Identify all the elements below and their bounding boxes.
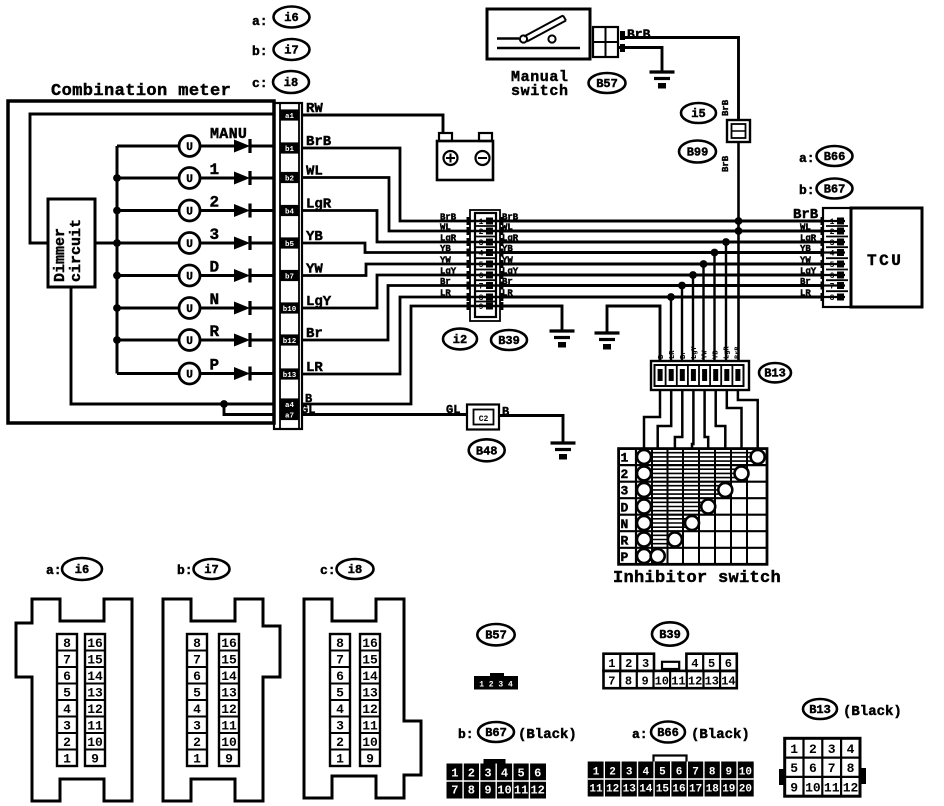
contact common row D (637, 500, 651, 514)
oval i5 (681, 103, 716, 123)
svg-text:10: 10 (362, 735, 378, 750)
wire WL to TCU (500, 230, 823, 233)
svg-text:17: 17 (689, 784, 702, 796)
oval i8 bottom (337, 559, 374, 579)
wire inhibitor lead (716, 390, 726, 449)
svg-text:B39: B39 (498, 334, 520, 348)
svg-text:18: 18 (706, 784, 720, 796)
svg-text:2: 2 (468, 767, 475, 781)
connector housing a i6 (16, 599, 132, 801)
TCU box U2 (851, 208, 922, 307)
label a:(B66) (Black) (632, 727, 648, 742)
svg-text:3: 3 (479, 239, 484, 248)
svg-text:2: 2 (621, 467, 629, 482)
wire drop to inhibitor pin (713, 253, 715, 363)
wire YB meter to joint connector (302, 243, 470, 253)
svg-text:c:: c: (252, 76, 268, 91)
svg-text:b7: b7 (285, 274, 294, 282)
wire B meter to joint connector (302, 306, 470, 404)
svg-text:2: 2 (830, 228, 835, 237)
svg-text:WL: WL (440, 223, 451, 233)
lamp R (179, 330, 200, 351)
wire diode to connector pin (251, 145, 274, 148)
svg-text:b10: b10 (283, 306, 297, 314)
svg-text:b12: b12 (283, 338, 297, 346)
oval B66 bottom (651, 722, 685, 743)
svg-text:15: 15 (656, 784, 670, 796)
svg-text:LgY: LgY (800, 267, 817, 277)
connector housing b i7 (163, 599, 280, 801)
connector i8 oval (273, 71, 309, 93)
svg-text:14: 14 (87, 669, 103, 684)
svg-text:a:: a: (799, 151, 815, 166)
svg-text:12: 12 (843, 780, 859, 795)
svg-text:3: 3 (336, 718, 344, 733)
svg-text:11: 11 (362, 718, 378, 733)
svg-text:U: U (186, 336, 193, 348)
svg-text:5: 5 (479, 261, 484, 270)
svg-text:1: 1 (593, 767, 600, 779)
connector B66 pin view black (588, 756, 754, 797)
wire dimmer bottom to pin B (71, 287, 274, 404)
oval B66 (817, 146, 853, 166)
wire LgY to TCU (500, 274, 823, 277)
svg-text:b:: b: (252, 44, 268, 59)
svg-text:i2: i2 (453, 333, 467, 347)
svg-text:3: 3 (642, 657, 649, 671)
wire inhibitor lead (738, 390, 758, 449)
svg-text:LR: LR (440, 289, 451, 299)
svg-text:B66: B66 (657, 726, 679, 740)
svg-text:7: 7 (193, 652, 201, 667)
svg-text:i7: i7 (284, 44, 298, 58)
svg-text:b1: b1 (285, 146, 295, 154)
wire Br meter to joint connector (302, 286, 470, 341)
svg-text:6: 6 (676, 767, 683, 779)
svg-text:13: 13 (362, 685, 378, 700)
svg-text:P: P (210, 357, 220, 375)
label (B13) (Black) (803, 699, 902, 720)
label c:(i8) bottom (320, 563, 336, 578)
contact common row R (637, 533, 651, 547)
svg-text:5: 5 (830, 261, 835, 270)
diode D7 (234, 333, 250, 347)
wire B to ground (499, 416, 563, 443)
node junction row2 (735, 227, 743, 235)
svg-text:3: 3 (484, 767, 491, 781)
contact 3 position (718, 483, 732, 497)
svg-text:14: 14 (362, 669, 378, 684)
wire lamp N to diode (200, 307, 235, 310)
svg-text:U: U (186, 304, 193, 316)
svg-text:1: 1 (336, 751, 344, 766)
svg-text:8: 8 (63, 636, 71, 651)
wire RW (302, 115, 443, 134)
svg-text:9: 9 (725, 767, 732, 779)
lamp 1 (179, 168, 200, 189)
svg-text:2: 2 (625, 657, 632, 671)
contact common row P (637, 549, 651, 563)
connector B67 pin view black (447, 759, 547, 799)
svg-text:a7: a7 (285, 413, 294, 421)
svg-text:D: D (621, 500, 629, 515)
wire lamp 3 to diode (200, 242, 235, 245)
inhibitor connector B13 (651, 361, 749, 390)
node junction B/GL branch (220, 400, 228, 408)
svg-text:9: 9 (479, 303, 484, 312)
wire lamp 1 to diode (200, 177, 235, 180)
svg-text:i6: i6 (75, 563, 89, 577)
contact strip row P (650, 552, 658, 560)
svg-text:4: 4 (691, 657, 698, 671)
wire drop to inhibitor pin (670, 297, 672, 362)
wire drop to inhibitor pin (702, 264, 704, 362)
lamp D (179, 265, 200, 286)
label b:(B67) (799, 183, 815, 198)
svg-text:4: 4 (501, 767, 508, 781)
svg-text:5: 5 (708, 657, 715, 671)
manual switch S1 (487, 9, 590, 59)
svg-text:3: 3 (828, 742, 836, 757)
wire bus to lamp P (117, 372, 180, 375)
manual switch connector pins (593, 27, 625, 57)
svg-text:11: 11 (514, 784, 528, 798)
label a:(i6) bottom (46, 563, 62, 578)
contact strip row N (650, 519, 692, 527)
svg-text:U: U (186, 142, 193, 154)
contact 1 position (751, 450, 765, 464)
svg-text:U: U (186, 174, 193, 186)
oval B48 (469, 439, 505, 461)
svg-text:6: 6 (534, 767, 541, 781)
svg-text:YB: YB (713, 350, 721, 359)
svg-text:16: 16 (362, 636, 378, 651)
svg-text:Dimmer: Dimmer (52, 228, 69, 282)
svg-text:2: 2 (479, 228, 484, 237)
svg-text:1: 1 (193, 751, 201, 766)
svg-text:b13: b13 (283, 372, 297, 380)
svg-text:N: N (621, 517, 629, 532)
label b:(i7) bottom (177, 563, 193, 578)
wire manual switch to ground (618, 48, 662, 72)
contact strip row R (650, 535, 675, 543)
wires into TCU connector (821, 217, 846, 301)
svg-text:i8: i8 (284, 76, 298, 90)
svg-text:12: 12 (688, 675, 702, 689)
wire inhibitor lead (658, 390, 672, 449)
svg-text:LgY: LgY (691, 346, 699, 359)
svg-text:U: U (186, 239, 193, 251)
svg-text:GL: GL (446, 403, 460, 417)
wire LR to TCU (500, 296, 823, 299)
svg-text:1: 1 (790, 742, 798, 757)
ground G1 (550, 331, 575, 348)
svg-text:c:: c: (320, 563, 336, 578)
svg-text:6: 6 (479, 272, 484, 281)
connector B57 pin view (474, 673, 518, 690)
ground G4 (551, 443, 576, 460)
contact strip row 2 (650, 469, 742, 477)
wire WL meter to joint connector (302, 178, 470, 232)
svg-text:4: 4 (642, 767, 649, 779)
svg-text:Br: Br (800, 277, 811, 287)
wire bus to lamp 3 (117, 242, 180, 245)
svg-text:4: 4 (63, 702, 71, 717)
svg-text:B66: B66 (824, 150, 846, 164)
ground G2 (595, 333, 620, 350)
svg-text:1: 1 (830, 218, 835, 227)
wire bus to lamp 1 (117, 177, 180, 180)
svg-text:MANU: MANU (210, 126, 247, 143)
svg-text:14: 14 (221, 669, 237, 684)
svg-text:B67: B67 (824, 183, 846, 197)
svg-text:Br: Br (680, 351, 688, 359)
wire LR meter to joint connector (302, 297, 470, 374)
svg-text:15: 15 (87, 652, 103, 667)
svg-text:YB: YB (800, 244, 811, 254)
svg-text:10: 10 (805, 780, 821, 795)
svg-text:BrB: BrB (721, 155, 731, 172)
node junction (678, 282, 686, 290)
contact D position (701, 500, 715, 514)
svg-text:YW: YW (440, 256, 451, 266)
svg-text:5: 5 (336, 685, 344, 700)
contact common row N (637, 516, 651, 530)
illumination control unit (437, 133, 493, 180)
svg-text:LgR: LgR (724, 346, 732, 359)
svg-text:B48: B48 (476, 444, 498, 458)
svg-text:16: 16 (221, 636, 237, 651)
svg-text:15: 15 (362, 652, 378, 667)
wire diode to connector pin (251, 242, 274, 245)
svg-text:b4: b4 (285, 209, 295, 217)
connector B39 pin view (604, 654, 737, 689)
connector label c:(i8) (252, 76, 268, 91)
wire diode to connector pin (251, 177, 274, 180)
wire YW to TCU (500, 263, 823, 266)
svg-text:11: 11 (824, 780, 840, 795)
svg-text:D: D (210, 259, 220, 277)
svg-text:3: 3 (193, 718, 201, 733)
connector housing c i8 (304, 599, 421, 798)
svg-text:16: 16 (87, 636, 103, 651)
svg-text:1: 1 (451, 767, 458, 781)
svg-text:b:: b: (458, 727, 474, 742)
svg-text:LgR: LgR (440, 234, 457, 244)
oval i7 bottom (194, 559, 230, 579)
svg-text:7: 7 (692, 767, 699, 779)
svg-text:2: 2 (609, 767, 616, 779)
svg-text:9: 9 (484, 784, 491, 798)
oval B67 (817, 179, 853, 199)
node junction (711, 249, 719, 257)
svg-text:Br: Br (440, 277, 451, 287)
svg-text:9: 9 (225, 751, 233, 766)
inhibitor switch S2 grid (619, 449, 767, 565)
lamp N (179, 298, 200, 319)
oval B57 bottom (477, 624, 514, 645)
svg-text:P: P (621, 550, 629, 565)
svg-text:13: 13 (87, 685, 103, 700)
oval B99 (679, 141, 716, 163)
svg-text:5: 5 (790, 761, 798, 776)
wire inhibitor lead (675, 390, 682, 449)
wire bus to lamp 2 (117, 209, 180, 212)
svg-text:12: 12 (221, 702, 237, 717)
svg-text:U: U (186, 207, 193, 219)
svg-text:10: 10 (497, 784, 511, 798)
svg-text:8: 8 (336, 636, 344, 651)
wire manual switch BrB drop (737, 142, 740, 362)
wire diode to connector pin (251, 339, 274, 342)
connector label a:(i6) (252, 14, 268, 29)
wire LgR meter to joint connector (302, 211, 470, 243)
contact strip row 1 (650, 453, 758, 461)
oval i6 bottom (62, 558, 102, 580)
diode D2 (234, 171, 250, 185)
svg-text:(Black): (Black) (691, 727, 750, 743)
svg-text:7: 7 (828, 761, 836, 776)
svg-text:12: 12 (530, 784, 544, 798)
wire lamp R to diode (200, 339, 235, 342)
wire YB to TCU (500, 251, 823, 254)
diode D6 (234, 301, 250, 315)
svg-text:6: 6 (63, 669, 71, 684)
wire GL (302, 413, 467, 416)
wire drop to inhibitor pin (725, 242, 727, 362)
wire LgR to TCU (500, 241, 823, 244)
oval i2 (443, 329, 477, 350)
svg-text:13: 13 (221, 685, 237, 700)
svg-text:a:: a: (252, 14, 268, 29)
svg-text:1: 1 (621, 451, 629, 466)
oval B67 bottom (478, 722, 514, 742)
wire BrB to TCU (500, 220, 823, 223)
svg-text:1: 1 (479, 218, 484, 227)
wire branch to pin GL (224, 404, 274, 415)
svg-text:4: 4 (336, 702, 344, 717)
svg-text:7: 7 (479, 283, 484, 292)
svg-text:5: 5 (193, 685, 201, 700)
wire bus to lamp R (117, 339, 180, 342)
contact N position (685, 516, 699, 530)
svg-text:7: 7 (336, 652, 344, 667)
svg-text:N: N (210, 291, 220, 309)
svg-text:13: 13 (623, 784, 637, 796)
contact common row 1 (637, 450, 651, 464)
svg-text:7: 7 (451, 784, 458, 798)
svg-text:YW: YW (702, 350, 710, 359)
svg-text:8: 8 (830, 294, 835, 303)
svg-text:1 2 3 4: 1 2 3 4 (479, 681, 513, 690)
node bus junction (113, 174, 121, 182)
wire inhibitor ground leg (607, 306, 660, 362)
svg-text:i8: i8 (348, 563, 362, 577)
inline connector B48 (GL/B) (467, 405, 499, 430)
wire inhibitor lead (644, 390, 660, 449)
svg-text:10: 10 (221, 735, 237, 750)
svg-text:YB: YB (440, 244, 451, 254)
svg-text:1: 1 (210, 161, 220, 179)
svg-text:B67: B67 (485, 726, 507, 740)
label a:(B66) (799, 151, 815, 166)
wire labels above B13 (658, 346, 743, 359)
svg-text:1: 1 (608, 657, 615, 671)
lamp 2 (179, 200, 200, 221)
wire lamp P to diode (200, 372, 235, 375)
svg-text:8: 8 (479, 294, 484, 303)
svg-text:2: 2 (193, 735, 201, 750)
svg-text:20: 20 (739, 784, 752, 796)
svg-text:U: U (186, 272, 193, 284)
wire B to ground (500, 306, 562, 330)
svg-text:BrB: BrB (793, 207, 819, 223)
label b:(B67) (Black) (458, 727, 474, 742)
wire inhibitor lead (692, 390, 693, 449)
svg-text:i5: i5 (691, 107, 705, 121)
wire inhibitor lead (727, 390, 742, 449)
svg-text:1: 1 (63, 751, 71, 766)
svg-text:b2: b2 (285, 176, 295, 184)
node bus junction (113, 304, 121, 312)
wire inhibitor lead (705, 390, 709, 449)
svg-text:WL: WL (800, 223, 811, 233)
svg-text:10: 10 (87, 735, 103, 750)
svg-text:a:: a: (632, 727, 648, 742)
svg-text:B13: B13 (764, 367, 786, 381)
svg-text:BrB: BrB (735, 346, 743, 359)
wire drop to inhibitor pin (681, 286, 683, 363)
svg-text:TCU: TCU (867, 252, 903, 270)
lamp MANU (179, 136, 200, 157)
contact R position (668, 533, 682, 547)
lamp 3 (179, 233, 200, 254)
svg-text:2: 2 (63, 735, 71, 750)
svg-text:8: 8 (468, 784, 475, 798)
svg-text:2: 2 (210, 194, 220, 212)
node junction (722, 238, 730, 246)
wire YW meter to joint connector (302, 264, 470, 276)
svg-text:a1: a1 (285, 113, 295, 121)
wire bus to lamp N (117, 307, 180, 310)
contact common row 3 (637, 483, 651, 497)
svg-text:9: 9 (91, 751, 99, 766)
svg-text:8: 8 (709, 767, 716, 779)
wire Br to TCU (500, 284, 823, 287)
svg-text:3: 3 (830, 239, 835, 248)
diode D1 (234, 139, 250, 153)
svg-text:7: 7 (608, 675, 615, 689)
wire lamp supply bus (116, 146, 119, 374)
svg-text:LR: LR (669, 350, 677, 359)
wire drop to inhibitor pin (692, 275, 694, 362)
wire BrB manual switch to drop (625, 38, 739, 121)
wire bus to lamp D (117, 274, 180, 277)
svg-text:C2: C2 (479, 415, 489, 424)
svg-text:6: 6 (725, 657, 732, 671)
svg-text:12: 12 (362, 702, 378, 717)
connector i6 oval (274, 7, 310, 28)
contact 2 position (735, 466, 749, 480)
wire dimmer output to bus (95, 242, 117, 245)
contact strip row D (650, 502, 708, 510)
svg-text:b:: b: (799, 183, 815, 198)
wire diode to connector pin (251, 372, 274, 375)
svg-text:BrB: BrB (721, 99, 731, 116)
svg-text:4: 4 (193, 702, 201, 717)
TCU connector strip (823, 208, 851, 307)
diode D3 (234, 204, 250, 218)
